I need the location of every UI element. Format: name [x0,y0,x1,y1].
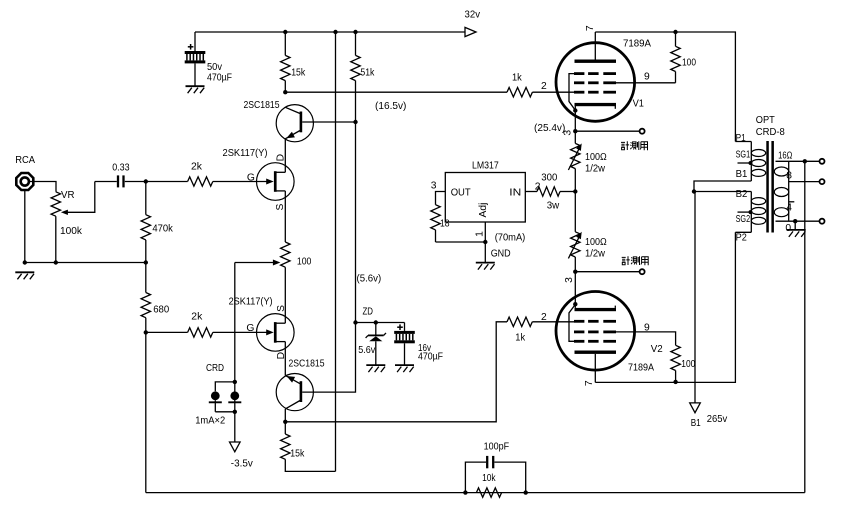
node dot feedback right [524,490,528,494]
svg-text:V1: V1 [633,99,645,110]
svg-text:100: 100 [681,359,695,370]
capacitor C 16v 470uF [404,323,406,331]
svg-text:100k: 100k [60,226,83,237]
wire feedback from 16ohm tap [804,161,806,492]
svg-text:B2: B2 [736,189,748,200]
JFET J2 drain hook [276,341,286,343]
node dot cathode V1 [573,129,577,133]
resistor 680 feedback [141,293,150,318]
svg-text:9: 9 [644,323,650,334]
svg-text:G: G [247,173,255,184]
svg-text:2: 2 [541,312,547,323]
svg-text:100Ω: 100Ω [585,237,607,248]
VR wiper arrow [68,182,95,213]
JFET J1 channel bar [274,171,277,192]
VR1 arrow [568,146,580,170]
LM317 pin 2 wire [525,191,537,193]
tube V1 grid G1 row [574,91,584,94]
tube V1 plate [575,60,617,63]
capacitor 0.33uF coupling [95,181,117,183]
JFET J1 drain hook [276,171,286,173]
transistor Q2 collector lead [285,401,300,409]
resistor 2k (J1 gate) [188,177,213,186]
wire wiper down to CRD [234,263,236,382]
node dot feedback left [463,490,467,494]
tube V1 plate lead pin 7 [594,32,596,60]
transformer primary connector [735,141,751,143]
wire 32v bus left [195,31,465,33]
node dot V2 cathode internal [573,302,577,306]
wire V1 cathode to test node [574,111,576,132]
svg-text:2SC1815: 2SC1815 [244,100,280,111]
resistor 18 ohm [431,205,440,230]
node dot 15k bottom / Q1 collector [283,90,287,94]
tube V2 grid G3 row [574,340,584,343]
svg-text:470µF: 470µF [207,73,232,84]
wire 51k down to zener node [355,122,357,323]
transistor Q1 emitter lead with arrow [285,131,300,139]
svg-text:SG1: SG1 [736,150,751,161]
transformer primary upper coils [751,150,765,157]
svg-text:10k: 10k [482,473,496,484]
LM317 pin 3 wire [436,192,446,205]
node dot plate/100 V2 [673,380,677,384]
label keisokuyo 2 [622,256,648,265]
svg-text:D: D [276,154,287,161]
svg-text:2k: 2k [191,162,203,173]
transformer primary lower connector [750,192,752,233]
tube V1 G3 internal tie [569,74,575,111]
svg-text:B1: B1 [691,418,701,429]
svg-text:SG2: SG2 [736,214,751,225]
wire Q2 collector down [284,409,286,422]
svg-text:3: 3 [431,181,437,192]
tube V2 grid G2 row [574,331,584,334]
svg-text:2SK117(Y): 2SK117(Y) [229,296,273,307]
resistor 15k (V2 stage load) [284,422,286,434]
wire J2 drain down to Q2 [284,342,286,376]
wire RCA signal to VR top [29,182,56,192]
svg-text:3w: 3w [547,200,560,211]
transformer primary lower coils [751,198,765,205]
tube V1 grid G2 row [574,81,584,84]
node dot adj [483,240,487,244]
svg-text:IN: IN [509,187,521,198]
svg-text:300: 300 [541,173,557,184]
node dot 300/VRs [573,189,577,193]
svg-text:100: 100 [682,58,696,69]
wire V2 grid feed riser [285,322,507,422]
tube V1 cathode [575,103,617,106]
svg-text:2SK117(Y): 2SK117(Y) [223,148,268,159]
tube V2 pin9 wire [616,332,676,345]
svg-text:RCA: RCA [15,155,35,166]
tube V1 7189A envelope [556,43,635,122]
resistor 15k (V1 stage load) [284,32,286,55]
ground line left [25,262,146,264]
wire test terminal V2 [575,271,639,273]
IC U1 LM317 box [445,173,525,223]
tube V1 grid G3 row [574,72,584,75]
resistor 1k (V2 grid stopper) [507,317,532,326]
tube V2 7189A envelope [556,292,635,371]
transformer B2 wire [694,191,751,193]
node dot 680/2k/feedback [144,330,148,334]
tube V2 G3 internal tie [569,305,575,342]
JFET J2 2SK117(Y) circle [257,314,295,352]
svg-text:V2: V2 [651,344,663,355]
svg-text:S: S [276,305,287,312]
svg-text:CRD: CRD [206,363,224,374]
svg-text:1: 1 [475,231,486,237]
ground below zener [366,364,385,366]
wire 0 to ground [794,221,796,229]
transistor Q2 emitter lead with arrow [285,375,300,383]
JFET J2 channel bar [274,322,277,343]
wire V2 cathode lead [574,272,576,305]
tube V2 plate [575,351,617,354]
svg-text:1k: 1k [512,72,523,83]
resistor 10k feedback [476,488,501,497]
svg-text:VR: VR [61,190,75,201]
wire V1 grid line [285,91,507,93]
svg-text:50v: 50v [207,62,223,73]
potentiometer VR 100k [51,192,60,216]
ground below C2 [395,364,414,366]
node dot Q2 out [283,420,287,424]
LM317 adj pin wire [484,222,486,242]
CRD current diodes pair [233,380,237,384]
variable resistor 100ohm lower [574,192,576,232]
terminal circle V1 test [640,129,645,134]
svg-text:P1: P1 [736,133,746,144]
svg-text:15k: 15k [290,449,305,460]
resistor 51k (Q1 base bias) [355,32,357,55]
wire V1 plate bus to P1 [595,32,735,142]
node dot zener net left [353,320,357,324]
resistor 100 V2 screen [671,345,680,370]
svg-text:(16.5v): (16.5v) [375,101,406,112]
transformer secondary connector [788,161,790,221]
capacitor 100pF feedback [465,462,486,493]
wire 0 tap [776,220,820,222]
JFET J1 2SK117(Y) circle [257,163,295,201]
wire test terminal V1 [575,130,639,132]
wire 100 bottom to J2 source [284,267,286,323]
transistor Q1 base bar [300,112,303,133]
zener diode ZD 5.6v [375,323,377,335]
power arrow 32v input [465,27,476,36]
svg-text:4: 4 [786,203,792,214]
wire feedback riser [145,332,147,492]
power arrow B1 265v [690,403,701,413]
tube V1 pin9 wire [616,82,676,84]
wire V2 grid line [532,321,574,323]
svg-text:-3.5v: -3.5v [231,458,254,469]
svg-text:100pF: 100pF [484,442,510,453]
svg-text:0.33: 0.33 [112,163,130,174]
wire middle vertical 32v feed to 15k2 [335,32,337,471]
capacitor C 50v 470uF [194,32,196,51]
trimmer wiper arrow from CRD [235,262,274,264]
wire 8 tap [789,181,820,183]
svg-text:CRD-8: CRD-8 [756,127,785,138]
svg-text:(70mA): (70mA) [495,232,526,243]
resistor 470k (grid leak) [145,182,147,215]
wire 15k2 bottom corner [285,459,335,471]
svg-text:18: 18 [440,219,450,230]
wire adj node to ground [484,242,486,262]
node dot bus/middle wire [333,30,337,34]
node dot bus/100 [673,30,677,34]
wire V2 plate line to P2 [595,232,735,382]
label keisokuyo 1 [621,141,648,150]
svg-text:1/2w: 1/2w [585,163,606,174]
resistor 1k (V1 grid stopper) [507,88,532,97]
svg-text:LM317: LM317 [472,161,499,172]
svg-text:470k: 470k [152,224,173,235]
svg-text:OUT: OUT [451,187,472,198]
wire Q1 emitter down to JFET1 drain [284,139,286,173]
node dot 0.33/470k [144,179,148,183]
transistor Q2 base bar [300,381,303,402]
svg-text:1k: 1k [515,333,526,344]
svg-text:5.6v: 5.6v [358,345,376,356]
svg-text:680: 680 [153,305,169,316]
JFET J1 source hook [276,190,286,192]
node dot bus/51k [353,30,357,34]
transformer secondary coils [774,167,788,176]
svg-text:9: 9 [644,72,650,83]
svg-text:100Ω: 100Ω [585,152,607,163]
RCA jack [16,173,33,190]
node dot bus/15k [283,30,287,34]
svg-text:GND: GND [491,249,511,260]
wire 16ohm tap [776,160,820,162]
svg-text:16Ω: 16Ω [778,150,793,161]
svg-text:P2: P2 [736,233,747,244]
svg-text:32v: 32v [465,10,481,21]
svg-text:2: 2 [541,81,547,92]
node dot V1 cathode internal [573,108,577,112]
wire RCA ground lead [24,191,26,263]
wire bottom feedback line [146,492,805,494]
node dot 16ohm/feedback [803,159,807,163]
transistor Q1 base wire to 51k [302,121,355,123]
svg-text:Adj: Adj [478,203,489,218]
ground below LM317 [476,262,495,264]
svg-text:G: G [246,323,254,334]
svg-text:2k: 2k [191,312,203,323]
wire zener node horizontal [356,322,405,324]
svg-text:3: 3 [564,277,575,283]
transformer SG1 tap [738,162,751,164]
node dot gnd/VR [54,260,58,264]
transformer SG2 tap [738,211,751,213]
ground secondary [787,229,806,231]
terminal circle V2 test [640,269,645,274]
node dot gnd/RCA [23,260,27,264]
transformer OPT core [766,141,769,233]
label + C2 [397,326,403,328]
resistor 300 3w [537,187,560,196]
wire CRD to -3.5v arrow [234,412,236,442]
transistor Q1 2SC1815 circle [276,105,313,142]
svg-text:OPT: OPT [756,115,776,126]
transistor Q2 2SC1815 circle [276,374,313,411]
svg-text:S: S [275,204,286,211]
svg-text:7189A: 7189A [628,363,654,374]
svg-text:265v: 265v [707,414,728,425]
variable resistor 100ohm upper [574,131,576,143]
svg-text:B1: B1 [736,169,748,180]
svg-text:7189A: 7189A [623,39,651,50]
svg-text:ZD: ZD [363,307,374,318]
svg-text:2SC1815: 2SC1815 [289,359,325,370]
svg-text:15k: 15k [291,68,306,79]
node dot zener [374,320,378,324]
svg-text:(25.4v): (25.4v) [534,123,565,134]
ground symbol input [15,271,34,273]
wire J1 source down [284,191,286,242]
label + C1 [188,46,194,48]
resistor 100 V1 screen [675,32,677,46]
tube V2 cathode [575,308,617,311]
node dot B1/B2 [692,189,696,193]
tube V2 plate lead pin 7 [594,354,596,383]
wire 4 tap [789,201,795,203]
terminal 0 [820,219,825,224]
tube V2 grid G1 row [574,320,584,323]
transistor Q1 collector lead [285,107,300,113]
svg-text:470µF: 470µF [418,352,443,363]
svg-text:0: 0 [785,223,791,234]
svg-text:51k: 51k [360,68,375,79]
svg-text:1mA×2: 1mA×2 [195,416,225,427]
JFET J2 gate lead with arrow [213,331,267,333]
svg-text:8: 8 [786,170,792,181]
resistor 100 source trimmer [281,242,290,267]
ground below C1 [186,85,205,87]
svg-text:100: 100 [297,257,312,268]
JFET J2 source hook [276,322,286,324]
transistor Q2 base wire to zener node [302,323,355,393]
power arrow -3.5v [230,442,241,452]
svg-text:1/2w: 1/2w [585,248,606,259]
terminal 16ohm [820,159,825,164]
VR2 arrow [568,235,580,259]
JFET J1 gate lead with arrow [213,181,267,183]
node dot gnd/470k/680 [144,260,148,264]
resistor 2k (J2 gate) [146,331,188,333]
wire B+ riser [694,192,696,403]
wire 18 to adj node [436,241,486,243]
svg-text:7: 7 [585,25,596,31]
node dot V2 cathode [573,270,577,274]
node dot Q1 base / 51k [353,120,357,124]
svg-text:(5.6v): (5.6v) [357,274,382,285]
transformer B1 wire [694,181,751,192]
svg-text:7: 7 [584,380,595,386]
node dot 0/ground [793,219,797,223]
terminal 8 [820,179,825,184]
